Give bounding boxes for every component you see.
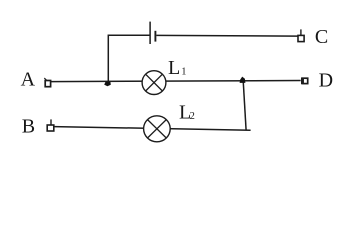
svg-text:A: A	[21, 69, 36, 91]
svg-text:2: 2	[190, 111, 195, 122]
terminal B binding post	[47, 119, 54, 131]
label L1	[168, 57, 187, 79]
svg-text:B: B	[22, 115, 35, 137]
lamp L1	[142, 71, 166, 95]
svg-text:1: 1	[181, 67, 186, 78]
svg-text:D: D	[319, 69, 333, 91]
wire: vertical from battery branch down to node on A-D wire	[108, 35, 149, 81]
terminal A binding post	[44, 78, 50, 87]
terminal C binding post	[298, 29, 304, 41]
battery B1 long plate (positive)	[149, 22, 151, 44]
terminal D binding post	[302, 77, 308, 84]
lamp L2	[144, 116, 171, 142]
junction node (branch wire joins A-D wire)	[104, 82, 111, 87]
label L2	[179, 101, 195, 123]
wire: terminal A to terminal D (middle rail)	[50, 81, 300, 82]
battery B1 short plate (negative)	[154, 31, 156, 42]
wire: terminal B to riser (bottom rail)	[55, 127, 251, 131]
wire: riser from A-D wire down to B rail	[243, 81, 246, 130]
svg-text:L: L	[168, 57, 180, 79]
junction node (riser joins A-D wire)	[240, 77, 246, 83]
svg-text:C: C	[315, 26, 328, 48]
wire: battery to terminal C	[156, 34, 297, 37]
